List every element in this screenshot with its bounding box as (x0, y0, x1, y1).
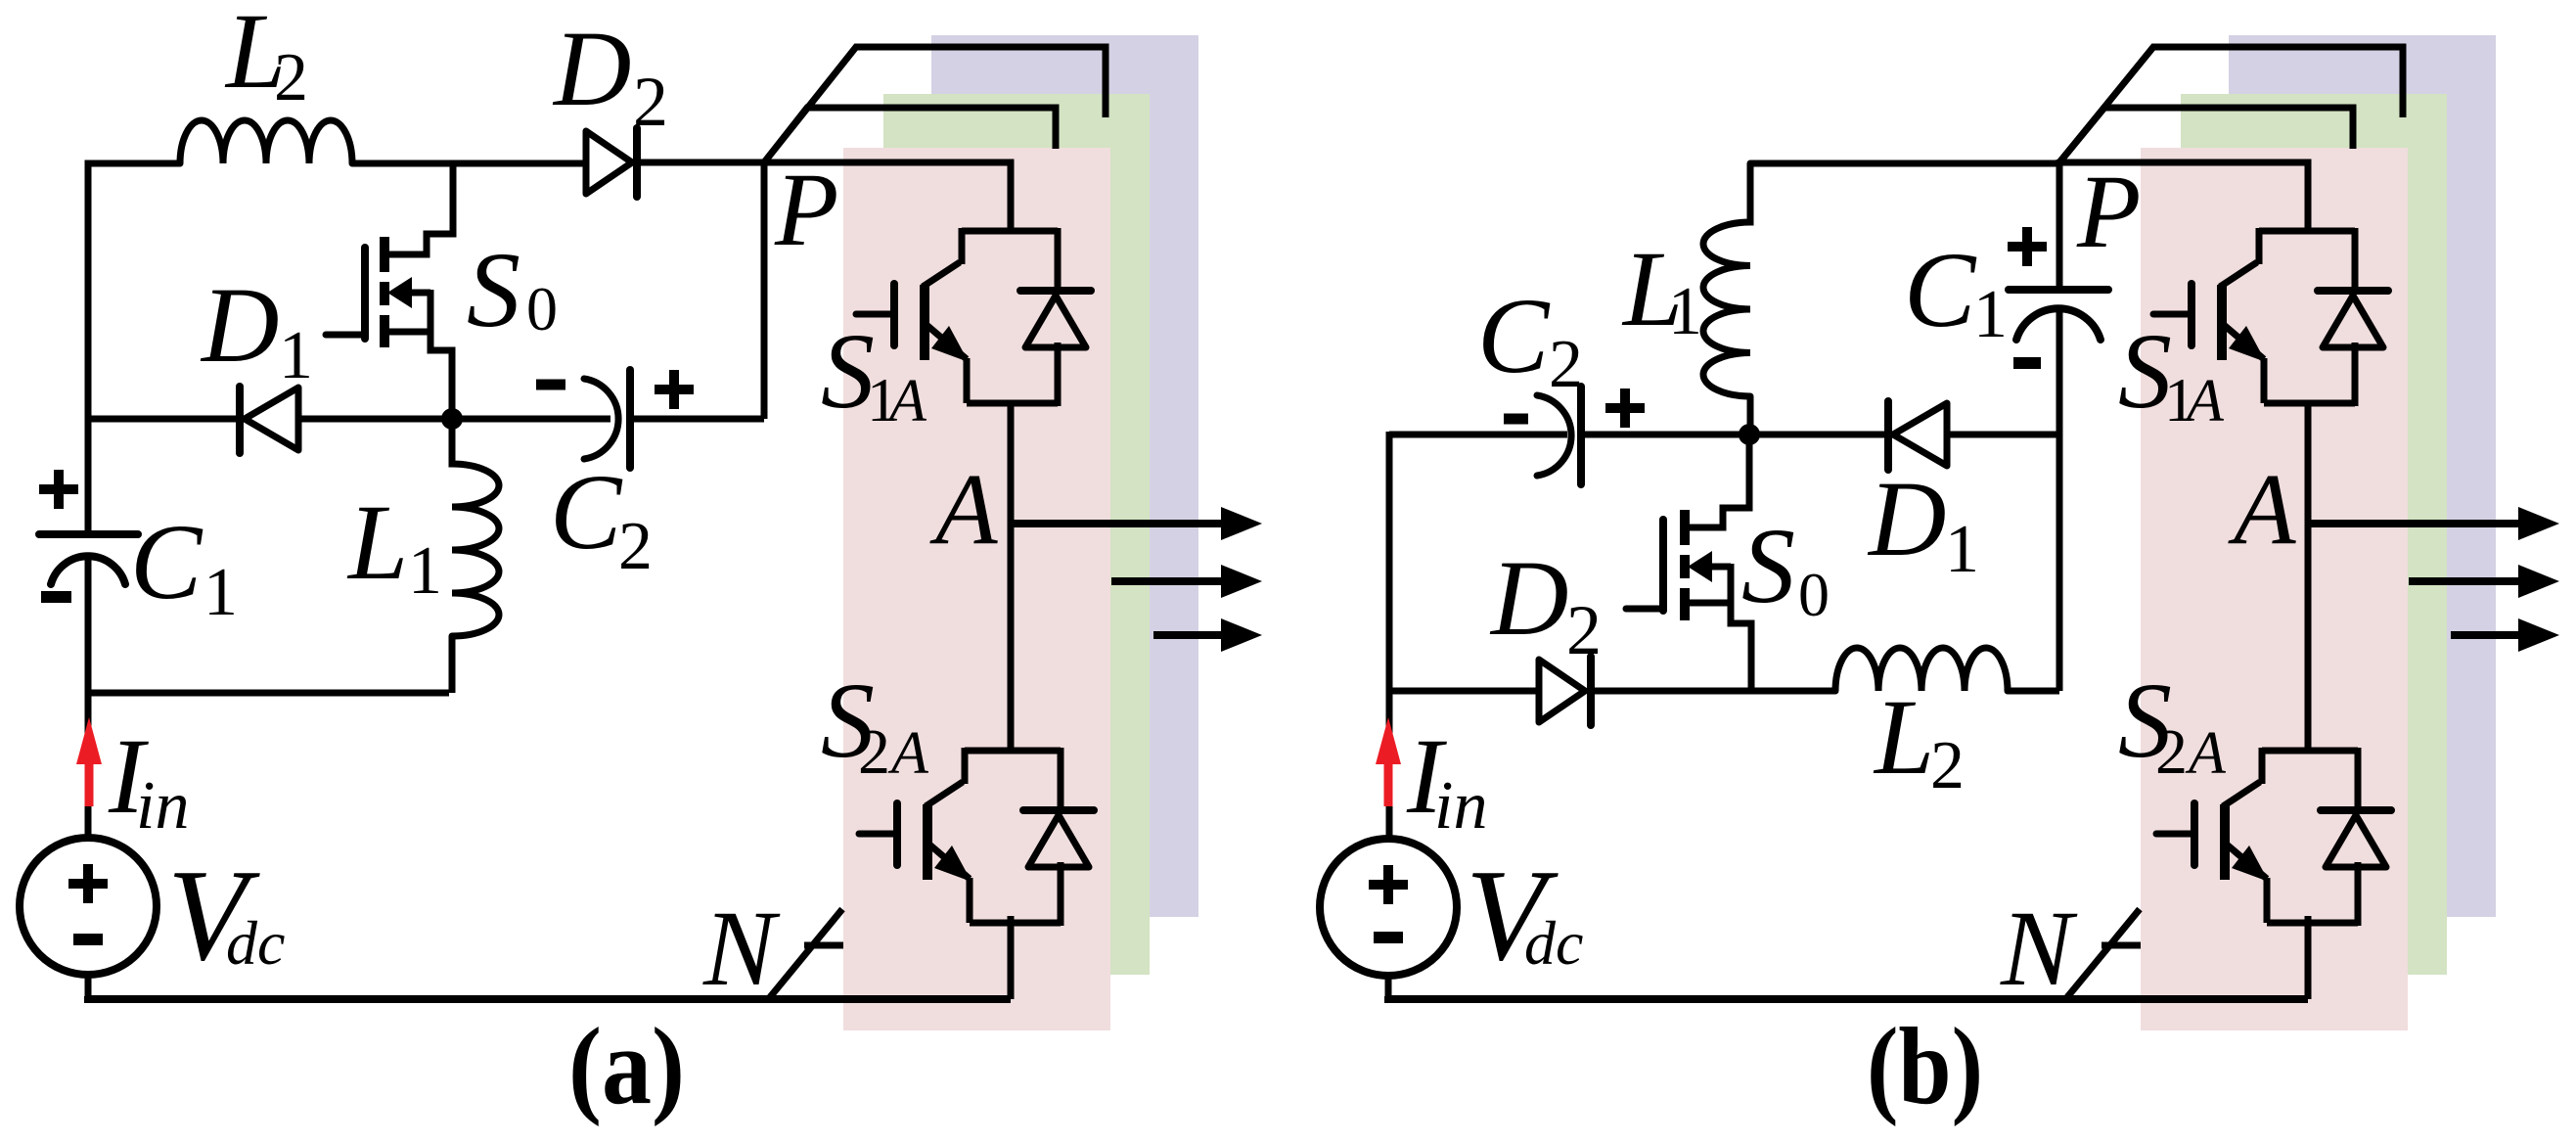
label Vdc (a) (167, 843, 285, 987)
wire: (a) S2A emitter to bottom bus (1008, 916, 1015, 999)
wire: (a) bottom loop to left rail (88, 690, 449, 697)
label S1A (b) (2118, 311, 2225, 434)
transistor S0 (a) source staircase to node (384, 332, 452, 419)
node: (b) junction dot (1739, 424, 1760, 445)
svg-text:2: 2 (274, 40, 308, 115)
capacitor C2 (b) curved plate (1537, 395, 1571, 476)
wire: (b) D2 to L2 (1588, 688, 1835, 695)
svg-text:2: 2 (2155, 716, 2188, 788)
svg-text:2: 2 (858, 716, 890, 788)
wire: (b) S2A emitter to bottom bus (2305, 916, 2312, 999)
inductor L1 (b) vertical coil (1703, 163, 1750, 396)
diode D1 (b) cathode bar (1884, 401, 1892, 470)
node N (a) slash tick (804, 942, 843, 949)
label D1 (b) (1867, 459, 1979, 587)
svg-text:A: A (2185, 720, 2227, 787)
IGBT S1A (b) with antiparallel diode (2153, 228, 2388, 406)
label Iin (b) (1406, 716, 1487, 844)
diode D2 (a) triangle (586, 131, 632, 194)
svg-text:A: A (2183, 368, 2225, 434)
label Iin (a) (108, 716, 189, 844)
transistor S0 (b) drain staircase from node (1685, 434, 1749, 527)
label C1 (a) (130, 502, 238, 630)
source Vdc (b) plus sign (1369, 865, 1408, 904)
transistor S0 (b) body-source link (1728, 564, 1735, 606)
IGBT S1A (a) with antiparallel diode (856, 228, 1091, 406)
wire: (a) top, L2 to D2 (352, 160, 586, 167)
label L1 (a) (346, 482, 442, 609)
output arrow phase B (a) (1111, 565, 1262, 598)
inductor L2 (b) coil (1835, 648, 2008, 691)
transistor S0 (b) source staircase to bottom row (1685, 603, 1751, 691)
diode D2 (a) cathode bar (633, 128, 641, 197)
svg-text:A: A (929, 453, 998, 566)
IGBT S2A (a) with antiparallel diode (859, 748, 1094, 926)
wire: (b) L1 bottom to node (1747, 396, 1754, 434)
svg-text:1: 1 (203, 555, 238, 630)
label: C2 (b) minus sign (1504, 414, 1528, 425)
label L1 (b) (1621, 229, 1702, 349)
node N (b) phase slash (2067, 909, 2140, 997)
svg-text:in: in (1434, 768, 1487, 844)
output arrow phase A (a) (1011, 507, 1262, 540)
transistor S0 (a) gate bar (361, 248, 369, 339)
svg-text:P: P (774, 153, 838, 268)
inductor L1 (a) vertical coil (452, 419, 499, 636)
wire: (a) left rail top corner + top wire to L2 (88, 163, 180, 534)
wire: (a) diagonal to middle bus (green) and drop (764, 108, 1056, 162)
label S1A (a) (821, 311, 927, 434)
wire: (b) P bus to S1A with drop (2059, 162, 2308, 231)
svg-text:0: 0 (526, 274, 558, 343)
three-phase overlay rect (green, phase B) [a] (883, 94, 1150, 975)
transistor S0 (b) gate lead (1626, 606, 1663, 613)
svg-text:A: A (885, 368, 927, 434)
svg-text:S: S (1741, 506, 1795, 625)
svg-text:A: A (2228, 453, 2296, 566)
source Vdc (b) minus sign (1374, 932, 1403, 943)
capacitor C1 (b) straight plate (2009, 286, 2108, 294)
svg-text:C: C (1477, 276, 1551, 395)
wire: (b) node to D1 (1749, 432, 1893, 438)
svg-text:D: D (1489, 538, 1568, 658)
svg-text:C: C (130, 502, 203, 621)
wire: (a) P corner vertical down to C2 row (761, 160, 768, 419)
label D1 (a) (200, 265, 313, 393)
svg-text:P: P (2076, 155, 2141, 270)
wire: (a) S1A emitter to A node and down to S2A (1008, 401, 1015, 753)
wire: (a) top, D2 to P corner (634, 160, 764, 166)
node: (a) junction dot (441, 408, 463, 430)
capacitor C2 (a) curved plate (584, 379, 618, 459)
capacitor C2 (b) straight plate (1577, 387, 1585, 484)
source Vdc (a) minus sign (73, 934, 103, 945)
diode D1 (a) cathode bar (236, 387, 244, 453)
transistor S0 (b) gate bar (1659, 520, 1667, 611)
capacitor C1 (a) curved plate (51, 556, 125, 584)
node N (a) phase slash (770, 909, 842, 997)
wire: (b) left rail (1386, 432, 1393, 691)
wire: (b) diagonal to top bus (lavender) and drop (2059, 47, 2403, 162)
label C1 (b) (1904, 230, 2008, 352)
label: C2 (a) minus sign (536, 380, 565, 390)
wire: (b) diagonal to middle bus (green) and drop (2059, 108, 2353, 162)
three-phase overlay rect (lavender, phase C) [a] (931, 35, 1198, 917)
svg-text:dc: dc (226, 908, 285, 978)
transistor S0 (a) drain staircase to top wire (384, 163, 453, 254)
output arrow phase A (b) (2308, 507, 2559, 540)
transistor S0 (a) gate lead (326, 332, 365, 339)
label: C2 (b) plus sign (1605, 389, 1645, 428)
svg-text:D: D (552, 9, 631, 128)
svg-text:0: 0 (1798, 560, 1830, 629)
svg-text:L: L (1873, 677, 1934, 797)
three-phase overlay rect (pink, phase A) [b] (2141, 148, 2408, 1030)
transistor S0 (b) channel segments (1680, 510, 1690, 620)
svg-text:D: D (200, 265, 279, 385)
label D2 (a) (552, 9, 668, 141)
diode D2 (b) cathode bar (1587, 657, 1595, 725)
svg-text:2: 2 (633, 63, 668, 141)
svg-text:1: 1 (1973, 277, 2008, 352)
label L2 (a) (224, 0, 308, 115)
current arrow Iin (a) (76, 717, 102, 806)
wire: (a) node to capacitor C2 (452, 416, 610, 423)
wire: (b) top wire from L1 to P corner (1750, 160, 2059, 167)
output arrow phase C (b) (2451, 618, 2559, 652)
wire: (a) L1 bottom to loop (449, 636, 456, 693)
svg-text:2: 2 (1566, 591, 1602, 669)
output arrow phase B (b) (2409, 565, 2559, 598)
transistor S0 (b) body arrow (1688, 551, 1731, 582)
wire: (b) L2 to right rail (2008, 688, 2059, 695)
wire: (a) Vdc bottom lead (85, 975, 92, 999)
svg-text:A: A (887, 720, 929, 787)
wire: (b) S1A emitter to A node and down to S2A (2305, 401, 2312, 753)
label D2 (b) (1489, 538, 1602, 669)
wire: (b) bottom bus to S2A (1388, 996, 2308, 999)
svg-text:S: S (467, 230, 520, 349)
svg-text:L: L (346, 482, 408, 602)
wire: (a) left rail below C1 to source (85, 554, 92, 840)
capacitor C1 (b) curved plate (2016, 308, 2101, 340)
label: C1 (b) plus sign (2008, 227, 2047, 266)
node N (b) slash tick (2101, 942, 2141, 949)
svg-text:(a): (a) (568, 1006, 685, 1127)
label C2 (a) (550, 452, 653, 584)
label L2 (b) (1873, 677, 1965, 803)
label: C1 (a) plus sign (39, 470, 78, 509)
label S2A (b) (2118, 661, 2227, 788)
svg-text:1: 1 (1945, 512, 1979, 587)
capacitor C2 (a) straight plate (626, 370, 634, 468)
svg-text:2: 2 (1549, 327, 1583, 402)
label S2A (a) (821, 661, 929, 788)
transistor S0 (a) body arrow (387, 277, 430, 308)
label Vdc (b) (1466, 843, 1583, 987)
diode D1 (a) triangle (245, 388, 298, 450)
label C2 (b) (1477, 276, 1583, 402)
source Vdc (a) circle (20, 838, 157, 975)
wire: (b) right rail P corner to C1 (2056, 160, 2063, 290)
three-phase overlay rect (lavender, phase C) [b] (2229, 35, 2496, 917)
svg-text:N: N (2000, 889, 2078, 1008)
source Vdc (b) circle (1320, 839, 1457, 976)
diode D1 (b) triangle (1893, 403, 1947, 466)
wire: (a) diagonal to top bus (lavender) and drop (764, 47, 1106, 162)
label: C1 (a) minus sign (41, 591, 71, 603)
label: C1 (b) minus sign (2013, 357, 2041, 369)
wire: (b) bottom row to D2 (1386, 688, 1541, 695)
svg-text:(b): (b) (1867, 1006, 1983, 1127)
svg-text:1: 1 (279, 318, 313, 393)
label S0 (b) (1741, 506, 1830, 629)
svg-text:2: 2 (1930, 728, 1965, 803)
diode D2 (b) triangle (1539, 660, 1585, 722)
label: C2 (a) plus sign (655, 370, 694, 409)
wire: (b) C2 to node (1581, 432, 1749, 438)
transistor S0 (a) channel segments (380, 237, 389, 347)
svg-text:C: C (550, 452, 623, 571)
wire: (a) D1 row from left rail (88, 416, 242, 423)
three-phase overlay rect (pink, phase A) [a] (843, 148, 1110, 1030)
inductor L2 (a) coil (180, 120, 352, 163)
transistor S0 (a) body-source link (428, 290, 434, 335)
svg-text:N: N (702, 889, 781, 1008)
three-phase overlay rect (green, phase B) [b] (2181, 94, 2447, 975)
svg-text:1: 1 (408, 533, 442, 609)
wire: (a) D1 to node (298, 416, 452, 423)
wire: (a) P bus to S1A with drop (764, 162, 1011, 231)
wire: (a) C2 to P rail (630, 416, 764, 423)
source Vdc (a) plus sign (68, 864, 108, 903)
svg-text:C: C (1904, 230, 1977, 349)
wire: (a) bottom bus to S2A (88, 996, 1011, 999)
wire: (b) rail down to Vdc (1386, 691, 1393, 840)
IGBT S2A (b) with antiparallel diode (2156, 748, 2391, 926)
label S0 (a) (467, 230, 558, 349)
wire: (b) D1 to right rail (1947, 432, 2059, 438)
svg-text:D: D (1867, 459, 1946, 578)
svg-text:2: 2 (618, 509, 653, 584)
wire: (b) right rail C1 to L2 row (2056, 309, 2063, 691)
output arrow phase C (a) (1153, 618, 1262, 652)
svg-text:dc: dc (1524, 908, 1583, 978)
svg-text:1: 1 (1668, 274, 1702, 349)
svg-text:in: in (136, 768, 189, 844)
wire: (b) C2 row from left rail (1389, 432, 1567, 438)
capacitor C1 (a) straight plate (39, 530, 138, 538)
current arrow Iin (b) (1376, 717, 1401, 806)
wire: (b) Vdc bottom lead (1385, 975, 1392, 999)
